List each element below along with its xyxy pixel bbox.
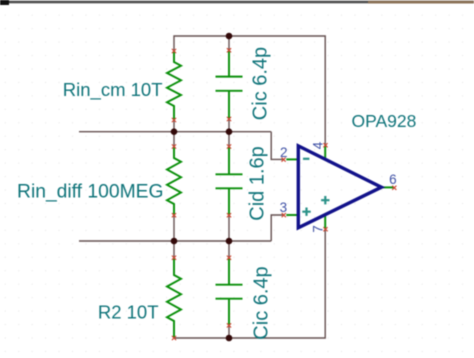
op-amp minus mark bbox=[303, 158, 309, 160]
op-amp pin 3 lead bbox=[286, 214, 298, 216]
pin x Cic top a bbox=[227, 48, 231, 52]
pin x op-amp 4 bbox=[323, 143, 327, 147]
pin x op-amp 3 bbox=[282, 213, 286, 217]
svg-text:7: 7 bbox=[311, 225, 326, 233]
svg-text:Cid 1.6p: Cid 1.6p bbox=[247, 146, 269, 221]
wire C2 bottom to row2 to C3 top bbox=[228, 215, 230, 258]
svg-text:R2 10T: R2 10T bbox=[98, 302, 159, 323]
op-amp pin 7 lead bbox=[324, 215, 326, 229]
capacitor Cic bottom bbox=[216, 258, 243, 326]
junction R row2 bbox=[171, 238, 178, 245]
junction C row1 bbox=[226, 128, 233, 135]
wire R1 bottom to row1 to R2 top bbox=[173, 120, 175, 147]
pin x Rin_diff bottom bbox=[172, 213, 176, 217]
pin x op-amp 7 bbox=[323, 227, 327, 231]
wire C3 bottom pin to bottom rail bbox=[228, 325, 230, 338]
pin x Rin_diff top bbox=[172, 144, 176, 148]
junction C1 top rail bbox=[226, 33, 233, 40]
op-amp U1 triangle bbox=[298, 146, 381, 228]
pin x R2 top bbox=[172, 256, 176, 260]
junction C3 bottom rail bbox=[226, 335, 233, 342]
pin x Cid b bbox=[227, 213, 231, 217]
svg-text:Rin_diff 100MEG: Rin_diff 100MEG bbox=[17, 182, 163, 203]
pin x Cic bottom b bbox=[227, 323, 231, 327]
svg-text:Cic 6.4p: Cic 6.4p bbox=[251, 266, 273, 339]
op-amp pin 6 lead bbox=[381, 186, 394, 188]
wire row1 horizontal to op-amp pin2 bbox=[79, 132, 284, 160]
capacitor Cic top bbox=[216, 50, 243, 119]
op-amp plus mark near pin3 bbox=[302, 208, 310, 216]
svg-text:OPA928: OPA928 bbox=[352, 111, 417, 131]
window top bar bbox=[0, 1, 474, 4]
op-amp plus mark inner bbox=[321, 196, 329, 204]
resistor Rin_cm bbox=[167, 51, 181, 120]
pin x Rin_cm bottom bbox=[172, 118, 176, 122]
pin x op-amp 2 bbox=[282, 158, 286, 162]
svg-text:Cic 6.4p: Cic 6.4p bbox=[250, 47, 272, 120]
svg-text:6: 6 bbox=[389, 172, 397, 187]
svg-text:3: 3 bbox=[280, 200, 288, 215]
op-amp pin 2 lead bbox=[286, 158, 298, 160]
junction C row2 bbox=[226, 238, 233, 245]
wire C1 bottom to row1 to C2 top bbox=[228, 119, 230, 147]
junction R row1 bbox=[171, 128, 178, 135]
pin x op-amp 6 bbox=[392, 186, 396, 190]
resistor Rin_diff bbox=[167, 147, 181, 216]
capacitor Cid bbox=[216, 147, 243, 216]
pin x Cid a bbox=[227, 144, 231, 148]
pin x R2 bottom bbox=[172, 336, 176, 340]
wire row2 horizontal to op-amp pin3 bbox=[79, 215, 284, 241]
wire R2 bottom to row2 to R3 top bbox=[173, 215, 175, 258]
svg-text:4: 4 bbox=[311, 141, 326, 149]
svg-text:Rin_cm 10T: Rin_cm 10T bbox=[63, 79, 163, 101]
wire C1 top pin to top rail bbox=[228, 36, 230, 50]
resistor R2 bbox=[167, 258, 181, 338]
wire bottom rail from R3 bottom to op-amp pin7 bbox=[174, 229, 325, 338]
pin x Rin_cm top bbox=[172, 49, 176, 53]
wire top rail from R1 top to op-amp pin4 bbox=[174, 36, 325, 145]
op-amp pin 4 lead bbox=[324, 145, 326, 159]
pin x Cic top b bbox=[227, 117, 231, 121]
svg-text:2: 2 bbox=[280, 145, 288, 160]
pin x Cic bottom a bbox=[227, 256, 231, 260]
